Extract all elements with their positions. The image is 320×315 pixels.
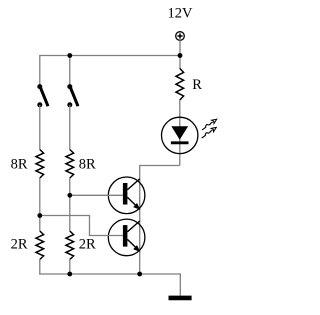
wire: top rail junction down to resistor R <box>179 56 181 69</box>
wire left column: 8R to 2R with tap junction <box>39 178 41 231</box>
junction node: bottom rail / emitter column <box>137 272 142 277</box>
junction node: top rail / supply column <box>178 53 183 58</box>
junction node: left divider tap <box>37 213 42 218</box>
switch S1 (open, left) <box>37 84 48 107</box>
wire: bottom rail to ground stub <box>179 273 181 295</box>
LED light emission arrow 2 <box>200 126 217 140</box>
svg-text:2R: 2R <box>11 236 28 252</box>
switch S2 (open, middle) <box>67 84 78 107</box>
wire middle column: switch S2 to resistor 8R <box>69 105 71 150</box>
wire: left divider tap vertical jog <box>89 215 91 236</box>
resistor R <box>176 68 184 100</box>
transistor Q1 circle <box>108 177 145 214</box>
wire: resistor R down through LED to corner <box>179 100 181 166</box>
wire middle column: rail to switch S2 <box>69 56 71 87</box>
transistor Q2 emitter line with arrow <box>127 239 140 252</box>
transistor Q1 collector line <box>127 179 139 190</box>
junction node: top rail / middle column <box>67 53 72 58</box>
svg-text:8R: 8R <box>79 156 96 172</box>
junction node: bottom rail / middle column <box>67 272 72 277</box>
wire middle column: 8R to 2R with tap junction <box>69 178 71 231</box>
resistor 8R (left) <box>36 150 44 179</box>
resistor 2R (middle) <box>66 231 74 260</box>
wire from supply terminal down to top rail <box>179 40 181 55</box>
transistor Q2 collector line <box>127 221 139 232</box>
wire left column: 2R down to bottom rail <box>39 260 41 275</box>
transistor Q2 circle <box>108 219 145 256</box>
wire: corner from LED column left to transistor column <box>140 165 180 167</box>
wire top rail <box>40 55 180 57</box>
transistor Q1 emitter line with arrow <box>127 197 140 210</box>
transistor Q2 base bar <box>123 225 128 247</box>
svg-text:R: R <box>192 77 202 93</box>
wire: left divider tap horizontal <box>40 215 90 217</box>
svg-text:2R: 2R <box>79 236 96 252</box>
junction node: middle divider tap <box>67 193 72 198</box>
wire: jog to Q2 base <box>89 235 123 237</box>
transistor Q1 base bar <box>123 183 128 205</box>
wire: middle divider tap to Q1 base <box>70 194 123 196</box>
LED D1 cathode bar <box>171 141 189 144</box>
wire left column: switch S1 to resistor 8R <box>39 105 41 150</box>
wire middle column: 2R down to bottom rail <box>69 260 71 275</box>
LED light emission arrow 1 <box>201 117 218 131</box>
LED D1 circle <box>162 117 198 153</box>
resistor 8R (middle) <box>66 150 74 179</box>
LED D1 anode triangle <box>171 126 188 140</box>
power supply positive terminal (+) <box>176 32 185 41</box>
wire left column: rail to switch S1 <box>39 55 41 87</box>
resistor 2R (left) <box>36 231 44 260</box>
svg-text:12V: 12V <box>168 6 194 22</box>
svg-text:8R: 8R <box>11 156 28 172</box>
wire bottom rail <box>39 273 180 275</box>
wire: transistor collector-emitter vertical <box>139 165 141 274</box>
ground symbol <box>169 296 192 301</box>
